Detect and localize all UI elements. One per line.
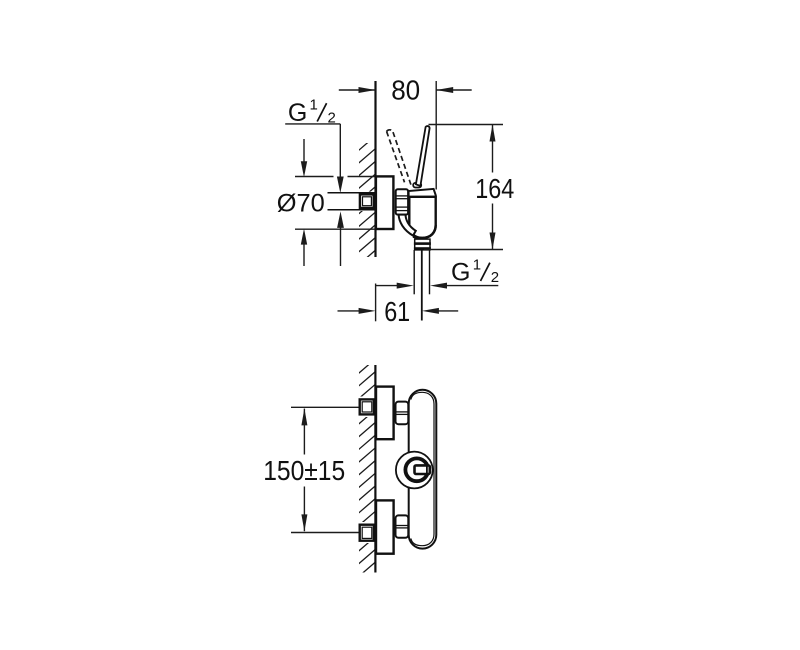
svg-text:1: 1 xyxy=(310,96,318,113)
svg-text:2: 2 xyxy=(491,269,499,286)
svg-text:164: 164 xyxy=(475,173,514,204)
svg-text:G: G xyxy=(451,258,470,286)
svg-text:80: 80 xyxy=(391,74,420,105)
svg-text:G: G xyxy=(288,99,307,127)
svg-text:Ø70: Ø70 xyxy=(277,190,325,218)
svg-text:150±15: 150±15 xyxy=(263,455,345,486)
svg-text:1: 1 xyxy=(473,256,481,273)
svg-text:61: 61 xyxy=(384,296,410,327)
